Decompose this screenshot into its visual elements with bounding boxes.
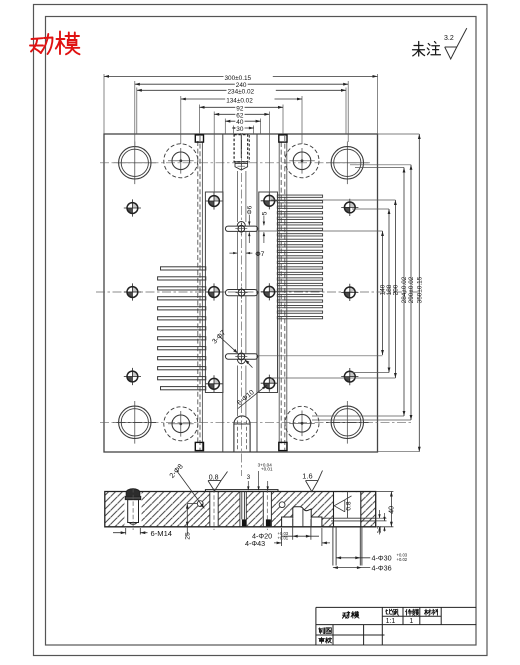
phi6 slot top with dome (225, 226, 257, 231)
slot middle (225, 290, 257, 296)
dim 134 (181, 96, 302, 104)
note text 注 (427, 42, 440, 55)
header 比例 (386, 609, 392, 614)
svg-text:3.2: 3.2 (444, 35, 454, 42)
header 材料 (424, 609, 431, 615)
dim 62 (214, 111, 269, 119)
section plate hatched body (105, 492, 376, 527)
right guide rail solid edges (279, 142, 287, 451)
right pin lines (263, 492, 271, 527)
ejector pin hole white (210, 492, 218, 527)
svg-text:+0.01: +0.01 (261, 467, 273, 472)
tapped hole left col mid (124, 283, 141, 300)
svg-text:200: 200 (393, 284, 400, 295)
right rail top tab (279, 135, 287, 142)
ledge line (322, 518, 376, 521)
sprue center line (240, 135, 242, 158)
svg-text:Φ6: Φ6 (247, 205, 254, 214)
cavity pocket outline (282, 507, 322, 527)
svg-text:3: 3 (247, 474, 251, 481)
tapped hole right strip bottom (261, 375, 278, 392)
label 审核 (319, 637, 325, 643)
svg-text:1.2: 1.2 (377, 526, 383, 534)
dim 188 (386, 209, 393, 373)
cavity pins below (293, 509, 311, 527)
dim 12 step (376, 510, 387, 535)
left cooling comb (158, 267, 206, 390)
tapped hole left col top (124, 199, 141, 216)
tapped hole left strip bottom (205, 375, 222, 392)
leader 6-phi10 (238, 385, 267, 408)
svg-text:+0.02: +0.02 (397, 557, 408, 562)
center column right edge (256, 134, 258, 452)
tapped hole left col bottom (124, 368, 141, 385)
dim 25 (187, 504, 197, 536)
pin hole right white (263, 492, 271, 527)
phi8 hole right white (279, 502, 285, 508)
leader lines right (258, 134, 419, 452)
section outline (105, 492, 376, 527)
M14 screw hole white (125, 492, 142, 527)
note 未注 3.2 roughness (413, 42, 441, 57)
centerline horizontal bottom circle row (100, 422, 411, 424)
right pin foot black (266, 519, 271, 526)
phi8 hole left white (197, 501, 203, 507)
tapped hole right col mid (341, 284, 358, 301)
dim 92 (200, 105, 284, 113)
corner screw hole top-right (331, 147, 363, 179)
svg-text:234±0.02: 234±0.02 (228, 89, 255, 96)
support pillar top-left dashed (164, 144, 198, 178)
red title char 模 (56, 32, 65, 55)
core pin hole white (240, 492, 246, 527)
svg-text:0.8: 0.8 (209, 475, 219, 482)
dim 30 (232, 125, 254, 133)
corner screw hole bottom-left (119, 406, 151, 438)
svg-text:+0.01: +0.01 (278, 535, 289, 540)
left guide rail dashed lines (198, 136, 200, 450)
tapped hole right col top (341, 199, 358, 216)
dim 284 (401, 168, 408, 417)
svg-text:6-M14: 6-M14 (151, 529, 173, 538)
dim 5 (263, 216, 265, 244)
rails and strips placeholder (195, 135, 287, 451)
svg-text:0.8: 0.8 (346, 501, 353, 510)
sprue puller cylinder (234, 416, 250, 452)
M14 screw (125, 488, 140, 530)
tapped hole right strip top (261, 192, 278, 209)
dim 4-phi30 (336, 557, 370, 559)
svg-text:30: 30 (236, 126, 244, 133)
dim 6-M14 (113, 528, 148, 535)
cavity bump white (293, 507, 311, 517)
title block frame (316, 607, 476, 645)
phi7 channel lines (237, 171, 246, 416)
dim 4-phi36 (333, 567, 370, 569)
mold plate outline (104, 134, 378, 452)
bore below plate (333, 527, 362, 566)
corner screw hole bottom-right (331, 406, 363, 438)
label 制图 (319, 628, 325, 634)
dim 234 (137, 88, 346, 96)
svg-text:350±0.15: 350±0.15 (417, 276, 424, 303)
ejector hole lines (210, 492, 218, 527)
centerline horizontal middle (96, 291, 420, 293)
cavity pocket white (282, 517, 322, 527)
tapped hole right col bottom (341, 368, 358, 385)
svg-text:5: 5 (261, 211, 268, 215)
svg-text:1:1: 1:1 (386, 618, 396, 625)
svg-text:284±0.02: 284±0.02 (401, 276, 408, 303)
left rail bottom tab (195, 442, 203, 450)
right ejector guide strip (259, 192, 278, 393)
left rail top tab (195, 135, 203, 142)
left ejector guide strip (205, 192, 223, 393)
bore white (334, 492, 361, 527)
dim 40 right (376, 492, 394, 527)
svg-text:4-Φ36: 4-Φ36 (372, 563, 392, 572)
tapped hole left strip top (205, 192, 222, 209)
border frame inner (46, 17, 477, 646)
title block text 动模 (343, 612, 350, 619)
slot lower with dome below (225, 354, 257, 359)
dim phi6 (248, 215, 250, 243)
right rail bottom tab (279, 442, 287, 450)
bore mid line (347, 492, 349, 519)
sprue tip cone (235, 162, 248, 170)
raised lip (205, 490, 278, 492)
roughness 0.8 top (208, 472, 228, 492)
svg-text:Φ7: Φ7 (255, 251, 264, 258)
right guide rail dashed lines (281, 136, 285, 450)
corner screw hole top-left (119, 147, 151, 179)
svg-text:40: 40 (389, 506, 396, 514)
small height dims 3 and tolerance (248, 471, 267, 490)
bore walls (334, 492, 361, 527)
right cooling comb (277, 195, 322, 319)
extension lines top (104, 74, 378, 192)
dim 140 (380, 231, 387, 355)
svg-text:134±0.02: 134±0.02 (226, 97, 253, 104)
note text 未 (413, 42, 425, 57)
tapped hole left strip mid (205, 283, 222, 300)
center column placeholder (223, 134, 258, 452)
dim 350 (417, 134, 424, 452)
svg-text:25: 25 (185, 532, 192, 540)
left guide rail solid edges (201, 142, 203, 451)
header 件数 (406, 609, 412, 615)
leader 2-phi8 (177, 471, 205, 509)
svg-text:4-Φ30: 4-Φ30 (372, 553, 392, 562)
centerline vertical sprue (241, 140, 243, 476)
right dimensions placeholder (258, 134, 424, 452)
support pillar top-right dashed (285, 144, 319, 178)
dim 4-phi20 (282, 519, 320, 540)
core pin foot black (242, 519, 246, 526)
svg-text:1: 1 (409, 618, 413, 625)
core pin lines (240, 492, 246, 527)
dim 40 (225, 118, 260, 126)
sprue bushing dashed slot (234, 135, 248, 162)
leader 3-phi7 (220, 337, 253, 368)
dim phi7 (229, 252, 252, 254)
roughness symbol in bore (334, 496, 351, 512)
svg-text:4-Φ43: 4-Φ43 (245, 539, 265, 548)
svg-text:300±0.15: 300±0.15 (225, 75, 252, 82)
svg-text:1.6: 1.6 (302, 472, 312, 481)
support pillar bottom-right dashed (285, 406, 319, 440)
dim 290 (408, 165, 415, 420)
dim 300 (104, 74, 378, 82)
roughness 1.6 top (306, 471, 323, 492)
small tapped holes with cross (124, 192, 359, 392)
dim 4-phi43 (274, 528, 330, 546)
dim 240 (135, 81, 348, 89)
combs placeholder (158, 195, 323, 390)
centerline horizontal top circle row (100, 162, 370, 164)
red title char 动 (30, 38, 43, 53)
tapped hole right strip mid (261, 283, 278, 300)
roughness symbol triangle (445, 28, 467, 59)
dim 200 (393, 200, 400, 378)
svg-text:290±0.02: 290±0.02 (408, 276, 415, 303)
support pillar bottom-left dashed (164, 407, 198, 441)
top dimensions placeholder (104, 74, 378, 192)
center column left edge (222, 134, 224, 452)
